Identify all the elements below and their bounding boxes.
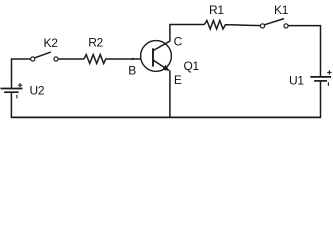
svg-text:U1: U1 <box>289 73 304 87</box>
svg-text:R1: R1 <box>209 3 224 17</box>
svg-text:Q1: Q1 <box>184 59 200 73</box>
svg-text:C: C <box>174 34 183 48</box>
svg-text:K1: K1 <box>274 3 289 17</box>
svg-text:B: B <box>128 64 136 78</box>
svg-text:K2: K2 <box>44 36 59 50</box>
svg-text:E: E <box>174 73 182 87</box>
svg-text:U2: U2 <box>30 84 45 98</box>
svg-text:R2: R2 <box>88 36 103 50</box>
